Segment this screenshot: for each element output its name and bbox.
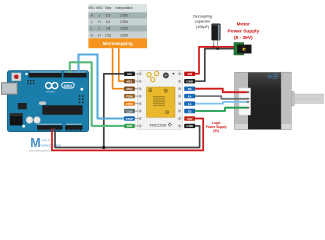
pin 2B [184, 87, 195, 92]
svg-text:1/16: 1/16 [105, 33, 111, 37]
svg-text:Interpolation: Interpolation [115, 6, 133, 10]
left pads [139, 72, 142, 127]
crystal [39, 102, 46, 105]
svg-text:GND: GND [186, 124, 194, 128]
svg-text:1/256: 1/256 [120, 20, 128, 24]
shaft [294, 94, 323, 103]
wire 5V red bus [52, 119, 203, 151]
pin EN [124, 72, 135, 77]
right end plate [281, 72, 291, 129]
wire 2A (gray) [195, 96, 247, 99]
capacitor C6 [34, 117, 41, 124]
svg-text:MS2: MS2 [96, 6, 103, 10]
svg-text:www.makerguides.com: www.makerguides.com [29, 150, 55, 153]
pin stubs left [135, 74, 138, 126]
pin MS2 [124, 87, 135, 92]
power supply J1 [234, 43, 252, 55]
motor brand logo [268, 74, 279, 81]
svg-text:1/256: 1/256 [120, 14, 128, 18]
power header [37, 125, 62, 129]
pin PDN 2 [124, 101, 135, 106]
wire GND (black) [195, 49, 235, 82]
junction cap-black [216, 47, 219, 50]
pin DIR [124, 124, 135, 129]
wire MS1 (orange) [119, 48, 124, 81]
TMC2208 chip [147, 87, 176, 117]
svg-text:MS1: MS1 [88, 6, 95, 10]
svg-text:TMC2208: TMC2208 [149, 123, 166, 127]
capacitor C1 100uF [211, 24, 220, 49]
motor body [248, 72, 281, 129]
pin CLK [124, 109, 135, 114]
shaft boss [291, 91, 294, 106]
label motor power supply [227, 22, 259, 42]
digital header right [64, 73, 87, 78]
svg-text:Motor: Motor [237, 22, 250, 28]
motor connector pin contacts [247, 92, 249, 109]
svg-text:(100µF): (100µF) [196, 25, 210, 29]
reset button [12, 73, 21, 81]
pin 1A [184, 101, 195, 106]
svg-text:L: L [99, 27, 101, 31]
wire 2B (red) [195, 89, 247, 93]
pin STEP [124, 116, 135, 121]
wire STEP (cyan) [79, 55, 125, 119]
pin 1B [184, 109, 195, 114]
svg-text:Power Supply: Power Supply [227, 29, 259, 35]
svg-text:GND: GND [186, 80, 194, 84]
capacitor C5 [26, 117, 33, 124]
svg-text:PDN: PDN [126, 102, 132, 106]
mounting hole [80, 88, 83, 91]
label logic power supply [206, 121, 227, 133]
svg-text:VIO: VIO [187, 117, 193, 121]
svg-text:L: L [91, 20, 93, 24]
svg-text:1/4: 1/4 [106, 20, 111, 24]
wire DIR (green) [70, 62, 124, 126]
digital header left [29, 73, 62, 78]
svg-text:ARDUINO: ARDUINO [46, 91, 55, 94]
svg-text:(8 - 36V): (8 - 36V) [234, 35, 253, 41]
mounting hole [22, 125, 25, 128]
svg-text:(5V): (5V) [213, 129, 219, 133]
motor connector [239, 88, 251, 115]
mounting hole [25, 73, 27, 75]
svg-text:UNO: UNO [64, 84, 72, 88]
svg-text:Step: Step [105, 6, 112, 10]
svg-text:PDN: PDN [126, 94, 132, 98]
driver module U1 TMC2208 [135, 70, 183, 129]
left end plate [235, 72, 249, 129]
pin PDN 1 [124, 94, 135, 99]
junction EN-GND [102, 146, 105, 149]
pin 2A [184, 94, 195, 99]
trimpot [163, 73, 168, 78]
wire EN (black) [104, 74, 124, 148]
ICSP pins [79, 95, 84, 103]
svg-text:L: L [99, 14, 101, 18]
svg-text:CLK: CLK [126, 109, 133, 113]
wire 1A (light blue) [195, 102, 247, 104]
USB connector [2, 83, 18, 95]
svg-text:1/256: 1/256 [120, 27, 128, 31]
svg-text:1/256: 1/256 [120, 33, 128, 37]
makerguides watermark [29, 136, 62, 153]
svg-text:DIR: DIR [127, 124, 133, 128]
pin MS1 [124, 79, 135, 84]
wire GND black bus [55, 126, 200, 148]
svg-text:Decoupling: Decoupling [193, 15, 212, 19]
svg-text:VM: VM [187, 72, 192, 76]
header pin ticks [38, 129, 81, 130]
silscreen dashes [30, 72, 86, 125]
electrolytic caps on module [147, 73, 151, 77]
svg-text:capacitor: capacitor [195, 20, 211, 24]
svg-text:STEP: STEP [126, 117, 134, 121]
stepper motor M1 [235, 72, 324, 129]
svg-text:MS1: MS1 [126, 80, 133, 84]
pin VIO [184, 116, 195, 121]
analog header [65, 125, 82, 129]
wire MS2 (orange) [113, 48, 125, 88]
ATmega328 chip [42, 105, 82, 114]
junction cap-red [212, 46, 215, 49]
voltage regulator [18, 103, 27, 109]
UNO label [62, 82, 74, 88]
svg-text:M: M [268, 74, 272, 80]
svg-text:how to: how to [42, 138, 51, 142]
pin GND top [184, 79, 195, 84]
infinity logo [46, 83, 58, 89]
pin VM [184, 72, 195, 77]
microstepping banner [88, 38, 147, 48]
right pads [178, 72, 181, 127]
label decoupling capacitor [193, 15, 212, 29]
svg-text:L: L [91, 27, 93, 31]
svg-text:EN: EN [127, 72, 131, 76]
ICSP2 pins [27, 80, 34, 84]
svg-text:1/8: 1/8 [106, 27, 111, 31]
svg-text:1/2: 1/2 [106, 14, 111, 18]
pin GND bottom [184, 124, 195, 129]
microstepping table [88, 4, 147, 48]
power jack [10, 113, 23, 125]
svg-text:MS2: MS2 [126, 87, 133, 91]
wire 1B (green) [195, 108, 247, 111]
svg-text:Microstepping: Microstepping [103, 41, 133, 46]
Arduino UNO board A1 [2, 71, 89, 132]
wire VM (red) [195, 47, 235, 74]
